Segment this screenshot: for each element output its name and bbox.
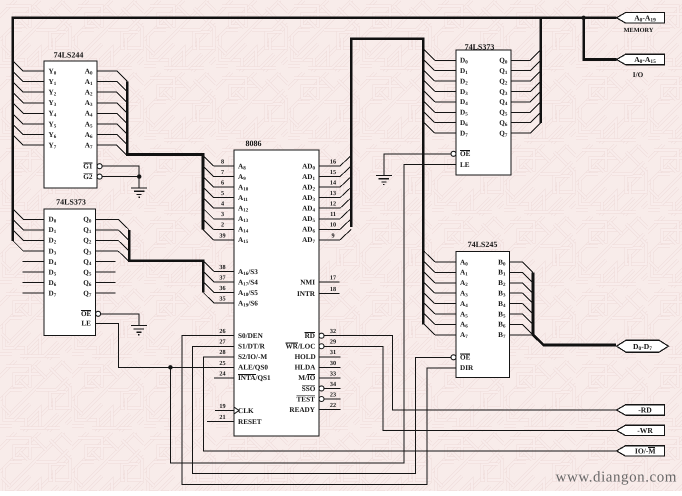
svg-text:A19/S6: A19/S6 bbox=[238, 299, 258, 308]
svg-text:18: 18 bbox=[330, 286, 336, 293]
svg-text:G2: G2 bbox=[83, 173, 93, 181]
svg-text:13: 13 bbox=[330, 190, 336, 197]
svg-text:HOLD: HOLD bbox=[295, 353, 316, 361]
svg-text:S2/IO/-M: S2/IO/-M bbox=[238, 353, 267, 361]
svg-text:RD: RD bbox=[305, 332, 315, 340]
svg-text:30: 30 bbox=[330, 360, 336, 367]
svg-text:35: 35 bbox=[219, 296, 225, 303]
svg-text:25: 25 bbox=[219, 360, 225, 367]
svg-text:16: 16 bbox=[330, 158, 336, 165]
svg-text:A18/S5: A18/S5 bbox=[238, 289, 258, 298]
svg-text:OE: OE bbox=[460, 354, 471, 362]
svg-text:7: 7 bbox=[221, 169, 224, 176]
svg-text:28: 28 bbox=[219, 349, 225, 356]
svg-text:21: 21 bbox=[219, 414, 225, 421]
svg-text:2: 2 bbox=[221, 222, 224, 229]
svg-text:22: 22 bbox=[330, 402, 336, 409]
svg-text:NMI: NMI bbox=[300, 278, 315, 286]
svg-text:A17/S4: A17/S4 bbox=[238, 278, 258, 287]
svg-text:LE: LE bbox=[460, 161, 470, 169]
svg-text:15: 15 bbox=[330, 169, 336, 176]
svg-text:34: 34 bbox=[330, 381, 336, 388]
svg-text:-RD: -RD bbox=[638, 406, 652, 415]
svg-text:CLK: CLK bbox=[238, 407, 254, 415]
svg-text:6: 6 bbox=[221, 180, 224, 187]
svg-text:WR/LOC: WR/LOC bbox=[285, 343, 315, 351]
svg-text:READY: READY bbox=[289, 406, 315, 414]
svg-text:38: 38 bbox=[219, 264, 225, 271]
svg-text:TEST: TEST bbox=[296, 395, 315, 403]
svg-text:37: 37 bbox=[219, 274, 225, 281]
svg-text:74LS245: 74LS245 bbox=[468, 240, 498, 249]
svg-text:74LS373: 74LS373 bbox=[56, 198, 86, 207]
svg-text:14: 14 bbox=[330, 180, 336, 187]
svg-text:I/O: I/O bbox=[633, 71, 644, 79]
svg-text:11: 11 bbox=[330, 211, 336, 218]
svg-text:S0/DEN: S0/DEN bbox=[238, 332, 264, 340]
svg-text:5: 5 bbox=[221, 190, 224, 197]
svg-text:OE: OE bbox=[81, 310, 92, 318]
svg-text:17: 17 bbox=[330, 274, 336, 281]
svg-text:A16/S3: A16/S3 bbox=[238, 268, 258, 277]
svg-text:HLDA: HLDA bbox=[295, 364, 317, 372]
svg-text:27: 27 bbox=[219, 339, 225, 346]
svg-text:74LS373: 74LS373 bbox=[465, 42, 495, 51]
svg-text:36: 36 bbox=[219, 285, 225, 292]
svg-text:INTA/QS1: INTA/QS1 bbox=[238, 374, 271, 382]
svg-text:74LS244: 74LS244 bbox=[54, 51, 84, 60]
svg-text:3: 3 bbox=[221, 211, 224, 218]
svg-text:S1/DT/R: S1/DT/R bbox=[238, 343, 266, 351]
svg-text:MEMORY: MEMORY bbox=[624, 27, 654, 34]
svg-text:12: 12 bbox=[330, 201, 336, 208]
svg-text:LE: LE bbox=[81, 320, 91, 328]
svg-text:19: 19 bbox=[219, 403, 225, 410]
svg-text:39: 39 bbox=[219, 232, 225, 239]
svg-text:9: 9 bbox=[331, 232, 334, 239]
svg-text:23: 23 bbox=[330, 391, 336, 398]
svg-text:26: 26 bbox=[219, 328, 225, 335]
svg-text:DIR: DIR bbox=[460, 364, 474, 372]
svg-text:29: 29 bbox=[330, 339, 336, 346]
svg-text:8: 8 bbox=[221, 158, 224, 165]
svg-text:SSO: SSO bbox=[302, 385, 316, 393]
svg-text:4: 4 bbox=[221, 201, 224, 208]
svg-text:-WR: -WR bbox=[637, 426, 653, 435]
svg-text:10: 10 bbox=[330, 222, 336, 229]
svg-text:24: 24 bbox=[219, 370, 225, 377]
svg-text:OE: OE bbox=[460, 150, 471, 158]
svg-text:www.diangon.com: www.diangon.com bbox=[556, 469, 677, 485]
svg-text:ALE/QS0: ALE/QS0 bbox=[238, 364, 268, 372]
svg-text:31: 31 bbox=[330, 349, 336, 356]
svg-text:INTR: INTR bbox=[297, 290, 316, 298]
svg-text:32: 32 bbox=[330, 328, 336, 335]
svg-text:G1: G1 bbox=[83, 163, 93, 171]
svg-text:8086: 8086 bbox=[246, 139, 262, 148]
svg-text:33: 33 bbox=[330, 370, 336, 377]
svg-text:M/IO: M/IO bbox=[298, 374, 316, 382]
svg-text:RESET: RESET bbox=[238, 418, 262, 426]
